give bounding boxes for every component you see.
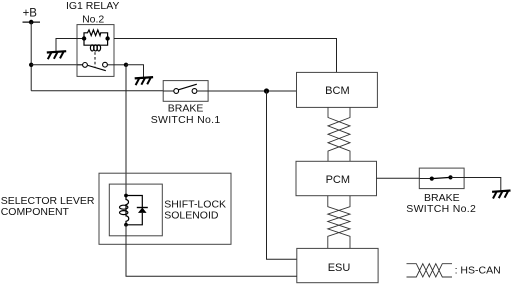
brake switch No.1 contacts bbox=[163, 84, 208, 93]
diode D1 flyback bbox=[126, 196, 148, 225]
brake switch No.2 box bbox=[419, 168, 464, 189]
twisted pair HS-CAN BCM to PCM bbox=[328, 107, 350, 161]
node solenoid top bbox=[124, 194, 128, 198]
wire junction to relay switch bbox=[31, 64, 82, 66]
label BRAKE SWITCH No.1 bbox=[151, 102, 221, 126]
wire +B vertical run bbox=[30, 22, 32, 91]
label BRAKE SWITCH No.2 bbox=[406, 192, 476, 215]
label SHIFT-LOCK SOLENOID bbox=[164, 199, 226, 222]
wire PCM to brake switch No.2 bbox=[377, 177, 420, 179]
svg-text:SWITCH No.2: SWITCH No.2 bbox=[406, 203, 476, 215]
node solenoid bottom bbox=[124, 223, 128, 227]
svg-text:BRAKE: BRAKE bbox=[424, 192, 460, 204]
dashed actuator link bbox=[94, 52, 96, 67]
brake switch No.1 box bbox=[163, 81, 208, 102]
coil shift-lock solenoid winding bbox=[120, 196, 129, 225]
PCM module box bbox=[296, 161, 377, 195]
svg-text:: HS-CAN: : HS-CAN bbox=[455, 264, 501, 276]
node relay parallel left bbox=[82, 36, 86, 40]
svg-text:BRAKE: BRAKE bbox=[168, 102, 204, 114]
svg-text:ESU: ESU bbox=[328, 262, 351, 274]
ground G3 bbox=[492, 191, 510, 199]
wire relay coil right lead to BCM bbox=[114, 39, 337, 73]
ground G1 bbox=[47, 51, 66, 59]
label IG1 RELAY No.2 bbox=[66, 0, 120, 25]
brake switch No.2 contacts bbox=[419, 175, 464, 180]
svg-text:SELECTOR LEVER: SELECTOR LEVER bbox=[1, 195, 95, 207]
node brake switch / ESU junction bbox=[264, 88, 269, 93]
BCM module box bbox=[297, 72, 378, 107]
wire relay output down to solenoid bbox=[125, 65, 127, 196]
wire junction down to ESU upper input bbox=[267, 91, 297, 259]
svg-text:COMPONENT: COMPONENT bbox=[1, 206, 70, 218]
svg-text:SWITCH No.1: SWITCH No.1 bbox=[151, 114, 221, 126]
node relay output junction bbox=[124, 63, 128, 67]
ground G2 bbox=[135, 77, 153, 85]
node relay parallel right bbox=[105, 36, 109, 40]
wire bottom run from +B to brake switch No.1 bbox=[31, 90, 163, 92]
ESU module box bbox=[297, 248, 378, 282]
wire relay output to ground G2 bbox=[126, 65, 144, 77]
wire relay switch output bbox=[114, 64, 126, 66]
relay switch contacts bbox=[77, 62, 114, 70]
svg-text:BCM: BCM bbox=[325, 85, 349, 97]
svg-text:PCM: PCM bbox=[326, 174, 350, 186]
terminal +B bbox=[23, 7, 41, 24]
svg-text:+B: +B bbox=[23, 7, 38, 19]
shift-lock solenoid box bbox=[109, 184, 162, 236]
selector lever component box bbox=[99, 173, 231, 244]
coil relay K1 winding bbox=[84, 39, 108, 52]
wire brake switch No.1 to BCM bbox=[208, 90, 296, 92]
legend twisted pair symbol bbox=[407, 264, 453, 277]
svg-text:No.2: No.2 bbox=[82, 13, 104, 25]
label SELECTOR LEVER COMPONENT bbox=[1, 195, 95, 218]
node junction +B column to relay switch bbox=[29, 63, 33, 67]
svg-text:IG1 RELAY: IG1 RELAY bbox=[66, 0, 120, 12]
relay K1 box bbox=[77, 25, 114, 77]
wire solenoid to ESU lower input bbox=[126, 225, 297, 276]
twisted pair HS-CAN PCM to ESU bbox=[328, 196, 350, 249]
wire brake switch No.2 to ground bbox=[464, 178, 501, 191]
wire relay coil left lead to ground corner bbox=[56, 39, 84, 52]
svg-text:SOLENOID: SOLENOID bbox=[164, 210, 219, 222]
resistor relay coil suppressor bbox=[84, 30, 108, 39]
